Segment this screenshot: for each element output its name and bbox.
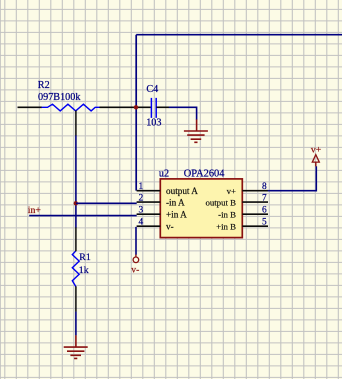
svg-text:output A: output A — [166, 186, 198, 196]
pin 2 — [137, 194, 237, 208]
pin 1 — [137, 182, 236, 196]
svg-text:v+: v+ — [311, 144, 321, 155]
wire (in+ to pin 3) — [29, 215, 137, 217]
svg-text:+in B: +in B — [216, 221, 236, 231]
op-amp U2 OPA2604 — [159, 168, 242, 237]
wire (pin 4 to v-) — [135, 227, 137, 255]
svg-text:output B: output B — [205, 197, 236, 207]
wire (R1 pins) — [75, 227, 77, 311]
junction node — [74, 201, 78, 205]
svg-text:103: 103 — [146, 118, 161, 129]
svg-text:-in B: -in B — [218, 209, 236, 219]
resistor R2 — [38, 80, 100, 111]
svg-text:8: 8 — [262, 182, 267, 192]
resistor R1 — [72, 251, 91, 287]
wire (R2 tap down) — [75, 111, 77, 136]
svg-text:R1: R1 — [79, 252, 91, 263]
svg-text:4: 4 — [139, 218, 144, 228]
svg-text:v-: v- — [131, 265, 139, 276]
pin 7 — [242, 194, 268, 204]
power port v- — [131, 255, 139, 276]
pin 5 — [242, 218, 268, 228]
wire — [75, 312, 77, 336]
svg-text:-in A: -in A — [166, 197, 185, 207]
svg-text:u2: u2 — [159, 168, 169, 179]
ground (near C4) — [184, 119, 208, 142]
svg-text:097B100k: 097B100k — [38, 92, 81, 103]
svg-text:v-: v- — [166, 221, 174, 231]
junction node — [134, 105, 138, 109]
wire — [75, 135, 77, 227]
svg-text:7: 7 — [262, 194, 267, 204]
wire — [169, 107, 197, 120]
capacitor C4 — [146, 84, 161, 129]
power port v+ — [311, 144, 321, 166]
wire (to pin 2) — [76, 202, 137, 204]
wire — [100, 106, 151, 108]
wire (pin 8 to v+) — [268, 166, 317, 191]
svg-text:in+: in+ — [28, 205, 42, 216]
svg-text:1: 1 — [139, 182, 144, 192]
pin 8 — [242, 182, 268, 192]
svg-text:2: 2 — [139, 194, 144, 204]
svg-text:3: 3 — [139, 206, 144, 216]
wire — [136, 34, 342, 36]
wire — [156, 106, 169, 108]
pin 4 — [137, 218, 237, 232]
svg-text:C4: C4 — [146, 84, 158, 95]
svg-text:6: 6 — [262, 206, 267, 216]
svg-text:+in A: +in A — [166, 209, 187, 219]
ground (bottom) — [64, 335, 88, 358]
svg-text:R2: R2 — [38, 80, 50, 91]
svg-text:v+: v+ — [227, 186, 236, 196]
svg-text:1k: 1k — [79, 265, 89, 276]
svg-text:OPA2604: OPA2604 — [184, 168, 225, 179]
svg-text:5: 5 — [262, 218, 267, 228]
pin 3 — [137, 206, 237, 220]
pin 6 — [242, 206, 268, 216]
wire — [18, 106, 42, 108]
wire — [135, 35, 137, 191]
